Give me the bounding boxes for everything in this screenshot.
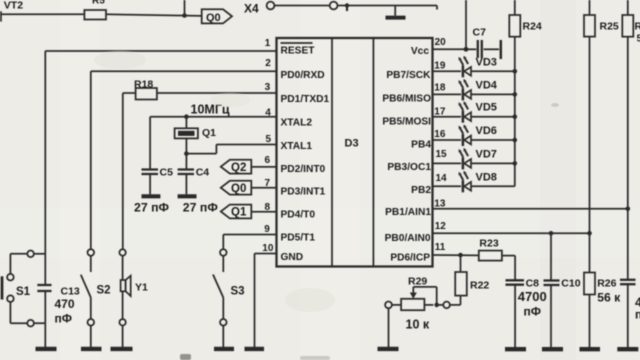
svg-text:470: 470 [55,297,75,311]
svg-text:5: 5 [265,134,271,145]
svg-text:XTAL2: XTAL2 [281,118,313,129]
svg-text:2: 2 [265,58,271,69]
svg-text:PD4/T0: PD4/T0 [281,210,316,221]
svg-text:Q0: Q0 [206,12,221,24]
svg-text:17: 17 [434,106,446,117]
svg-text:PB6/MISO: PB6/MISO [382,94,431,105]
svg-text:13: 13 [434,199,446,210]
svg-text:R2: R2 [635,21,640,33]
svg-text:S2: S2 [97,285,111,297]
svg-text:R22: R22 [470,280,489,292]
svg-text:Q2: Q2 [231,162,246,174]
svg-text:VD7: VD7 [476,148,497,160]
svg-text:C13: C13 [61,286,80,298]
svg-text:RESET: RESET [281,46,316,57]
svg-text:S1: S1 [16,286,31,298]
svg-text:PB2: PB2 [411,185,431,196]
svg-text:XTAL1: XTAL1 [281,141,313,152]
svg-text:VD4: VD4 [476,79,498,91]
svg-text:Q1: Q1 [202,127,216,139]
svg-text:16: 16 [434,129,446,140]
svg-text:X4: X4 [244,2,259,16]
svg-text:R5: R5 [92,0,105,6]
svg-text:R24: R24 [523,21,542,33]
svg-text:VT2: VT2 [4,0,23,12]
svg-text:PD3/INT1: PD3/INT1 [281,187,326,198]
svg-text:19: 19 [434,60,446,71]
svg-text:56: 56 [637,33,640,45]
svg-text:27 пФ: 27 пФ [183,201,219,215]
svg-text:пФ: пФ [55,312,73,326]
svg-text:PB7/SCK: PB7/SCK [386,70,431,81]
svg-text:PB5/MOSI: PB5/MOSI [382,117,431,128]
svg-text:12: 12 [435,221,447,232]
svg-text:R23: R23 [479,237,498,249]
svg-text:1: 1 [265,38,271,49]
svg-text:Q1: Q1 [231,207,247,219]
svg-text:GND: GND [281,252,304,263]
svg-text:PD0/RXD: PD0/RXD [281,70,325,81]
svg-text:56 к: 56 к [597,291,621,305]
svg-text:C10: C10 [561,278,580,290]
svg-text:9: 9 [264,224,270,235]
svg-text:S3: S3 [231,286,245,298]
svg-text:11: 11 [435,242,446,253]
svg-text:пФ: пФ [635,308,640,322]
svg-text:PB1/AIN1: PB1/AIN1 [385,207,431,218]
svg-text:VD3: VD3 [476,56,497,68]
svg-text:Q0: Q0 [231,183,246,195]
svg-text:R25: R25 [600,21,619,33]
svg-text:PD1/TXD1: PD1/TXD1 [281,94,330,105]
svg-text:Y1: Y1 [135,282,148,294]
svg-text:7: 7 [264,178,270,189]
svg-text:C8: C8 [526,278,540,290]
svg-text:10: 10 [262,243,274,254]
svg-text:C5: C5 [160,167,174,179]
svg-text:PD2/INT0: PD2/INT0 [281,164,326,175]
svg-text:PD5/T1: PD5/T1 [281,232,316,243]
svg-text:PD6/ICP: PD6/ICP [390,253,430,264]
svg-text:8: 8 [264,202,270,213]
svg-text:R26: R26 [597,278,616,290]
svg-text:PB0/AIN0: PB0/AIN0 [385,233,431,244]
svg-text:4700: 4700 [518,289,547,304]
svg-text:18: 18 [434,83,446,94]
svg-text:C7: C7 [473,27,487,39]
svg-text:Vcc: Vcc [411,46,429,57]
svg-text:15: 15 [436,149,448,160]
svg-text:PB3/OC1: PB3/OC1 [387,162,431,173]
svg-text:PB4: PB4 [411,139,431,150]
svg-text:R18: R18 [134,79,153,91]
svg-text:VD6: VD6 [476,125,497,137]
svg-text:20: 20 [435,37,447,48]
svg-text:C4: C4 [196,167,210,179]
svg-text:14: 14 [436,173,448,184]
svg-text:D3: D3 [345,138,359,150]
svg-text:6: 6 [264,155,270,166]
svg-text:VD5: VD5 [476,102,497,114]
svg-text:пФ: пФ [524,305,542,319]
svg-text:R29: R29 [408,276,427,288]
svg-text:10 к: 10 к [406,318,430,332]
svg-text:VD8: VD8 [476,171,497,183]
svg-text:3: 3 [265,82,271,93]
svg-text:27 пФ: 27 пФ [134,201,170,215]
svg-text:4: 4 [265,108,271,119]
